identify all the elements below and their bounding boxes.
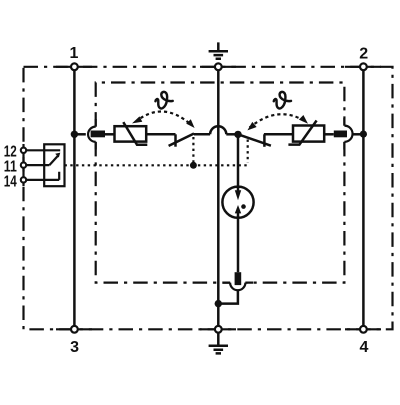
svg-text:3: 3 — [70, 339, 79, 356]
svg-text:14: 14 — [4, 173, 17, 190]
svg-text:1: 1 — [69, 45, 78, 62]
svg-text:2: 2 — [359, 46, 368, 63]
svg-text:4: 4 — [359, 339, 368, 356]
